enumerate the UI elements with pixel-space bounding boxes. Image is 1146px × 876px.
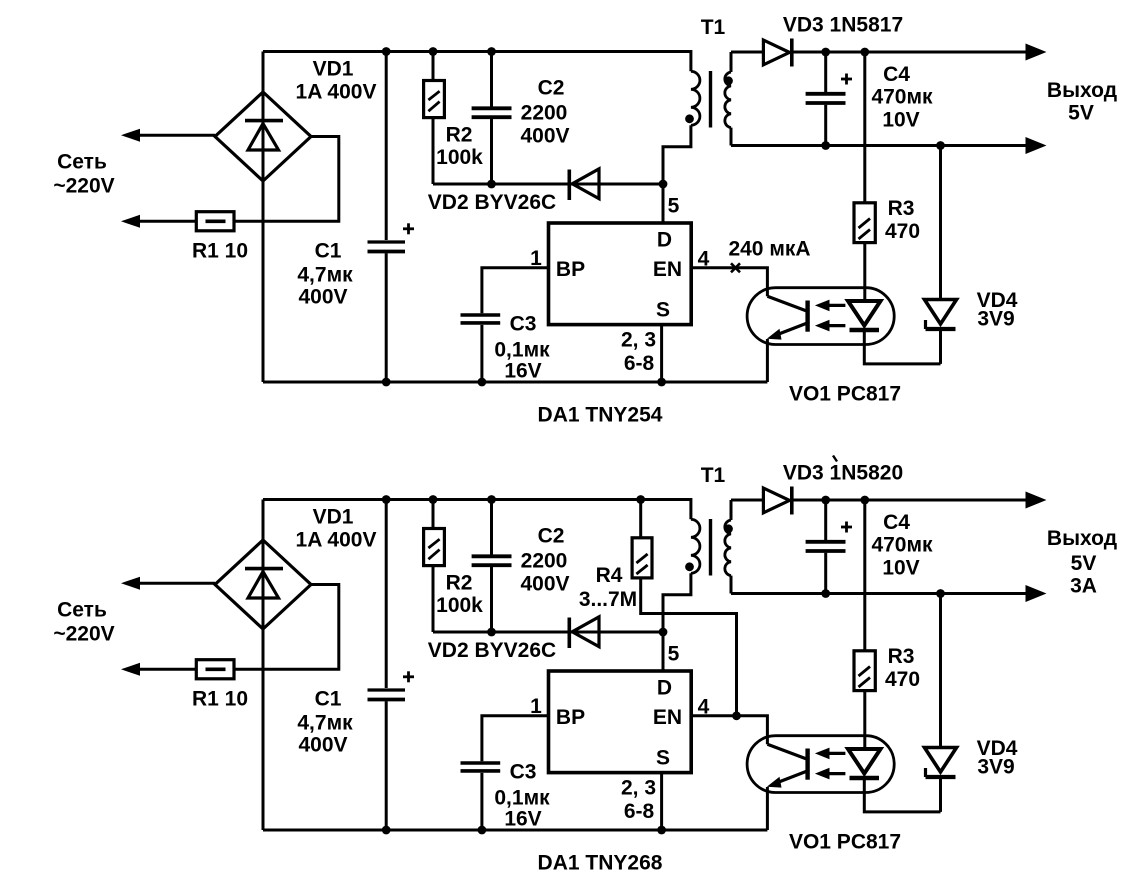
svg-text:0,1мк: 0,1мк bbox=[494, 339, 550, 362]
wire C2 branch (B) bbox=[490, 500, 493, 633]
wire R2 branch (A) bbox=[432, 52, 435, 185]
IC DA1 box (A) bbox=[549, 223, 692, 325]
svg-text:R1 10: R1 10 bbox=[192, 688, 248, 711]
svg-text:R2: R2 bbox=[446, 572, 473, 595]
C4 polarity plus (A) bbox=[841, 78, 852, 81]
svg-text:VD2 BYV26C: VD2 BYV26C bbox=[428, 191, 556, 214]
svg-text:~220V: ~220V bbox=[53, 175, 114, 198]
svg-text:3A: 3A bbox=[1070, 575, 1097, 598]
resistor R3 body (A) bbox=[854, 203, 875, 243]
transformer T1 secondary coil (A) bbox=[725, 72, 731, 128]
svg-text:R3: R3 bbox=[888, 197, 915, 220]
VD1 internal diode triangle (B) bbox=[248, 572, 279, 598]
svg-text:10V: 10V bbox=[882, 109, 919, 132]
wire R3 branch (B) bbox=[863, 500, 866, 749]
arrow +output (B) bbox=[1026, 492, 1047, 509]
junction C2 top (A) bbox=[487, 47, 496, 56]
junction C2 bottom (A) bbox=[487, 180, 496, 189]
svg-text:S: S bbox=[656, 747, 670, 770]
bridge rectifier VD1 diamond (A) bbox=[215, 92, 311, 181]
svg-text:400V: 400V bbox=[520, 573, 569, 596]
VD1 internal diode triangle (A) bbox=[248, 124, 279, 150]
diode VD3 cathode bar (A) bbox=[790, 39, 794, 67]
C1 polarity plus (A) bbox=[403, 227, 414, 230]
svg-text:VD1: VD1 bbox=[313, 58, 354, 81]
diode VD2 triangle (A) bbox=[572, 169, 599, 199]
junction S bottom (A) bbox=[657, 378, 666, 387]
svg-text:400V: 400V bbox=[298, 734, 347, 757]
wire pin 5 (B) bbox=[662, 632, 665, 671]
svg-text:C3: C3 bbox=[510, 761, 537, 784]
transformer T1 primary coil (A) bbox=[691, 71, 700, 125]
wire R4 top (B) bbox=[639, 500, 642, 539]
wire R1 to lower AC arrow (B) bbox=[138, 668, 196, 671]
wire bridge vertical VD1 + to bus (A) bbox=[262, 52, 265, 383]
resistor R1 body (B) bbox=[196, 660, 234, 679]
wire secondary top stub (B) bbox=[730, 500, 733, 520]
svg-text:4,7мк: 4,7мк bbox=[297, 264, 353, 287]
svg-text:2, 3: 2, 3 bbox=[621, 329, 656, 352]
svg-text:5: 5 bbox=[668, 643, 680, 666]
junction R2 top (A) bbox=[429, 47, 438, 56]
diode VD2 triangle (B) bbox=[572, 617, 599, 647]
svg-text:C1: C1 bbox=[315, 688, 342, 711]
wire pin S (B) bbox=[660, 773, 663, 830]
zener VD4 triangle (B) bbox=[925, 748, 957, 773]
wire pin 1 / BP (A) bbox=[482, 268, 549, 382]
wire secondary to VD3 (B) bbox=[731, 499, 763, 502]
wire bottom HV bus (A) bbox=[263, 381, 767, 384]
zener VD4 cathode bar (A) bbox=[926, 327, 956, 331]
wire bridge vertical VD1 + to bus (B) bbox=[262, 500, 265, 831]
wire clamp node (VD2 cathode wire) (A) bbox=[433, 183, 663, 186]
svg-text:6-8: 6-8 bbox=[624, 800, 655, 823]
VD1 internal diode cathode bar (B) bbox=[245, 567, 283, 571]
svg-text:1A 400V: 1A 400V bbox=[296, 529, 377, 552]
arrow lower AC lead (A) bbox=[121, 215, 140, 228]
svg-text:C4: C4 bbox=[883, 63, 910, 86]
IC DA1 box (B) bbox=[549, 671, 692, 773]
wire secondary top stub (A) bbox=[730, 52, 733, 72]
svg-text:T1: T1 bbox=[701, 464, 726, 487]
wire R3 branch (A) bbox=[863, 52, 866, 301]
svg-text:2200: 2200 bbox=[521, 102, 568, 125]
optocoupler VO1 body (A) bbox=[747, 288, 894, 345]
resistor R4 marks (B) bbox=[636, 554, 647, 563]
svg-text:R3: R3 bbox=[888, 645, 915, 668]
svg-text:Выход: Выход bbox=[1047, 79, 1117, 102]
capacitor C3 plates (A) bbox=[461, 313, 501, 317]
svg-text:470мк: 470мк bbox=[871, 86, 933, 109]
transformer T1 core (A) bbox=[709, 71, 712, 128]
svg-text:5V: 5V bbox=[1068, 102, 1094, 125]
diode VD3 cathode bar (B) bbox=[790, 487, 794, 515]
svg-text:470: 470 bbox=[885, 220, 920, 243]
wire C4 branch (B) bbox=[824, 500, 827, 594]
svg-text:100k: 100k bbox=[436, 146, 483, 169]
junction C4 bottom (A) bbox=[821, 141, 830, 150]
junction C2 bottom (B) bbox=[487, 628, 496, 637]
VO1 LED cathode bar (A) bbox=[850, 328, 880, 332]
capacitor C1 plates (B) bbox=[368, 688, 406, 691]
svg-text:D: D bbox=[657, 229, 672, 252]
svg-text:470: 470 bbox=[885, 668, 920, 691]
svg-text:6-8: 6-8 bbox=[624, 352, 655, 375]
diode VD2 cathode bar (A) bbox=[567, 170, 571, 201]
junction drain node (pin 5) (A) bbox=[659, 180, 668, 189]
zener VD4 anode tick (B) bbox=[924, 768, 927, 777]
VO1 LED triangle (A) bbox=[848, 301, 881, 326]
wire R2 branch (B) bbox=[432, 500, 435, 633]
wire secondary bottom stub (B) bbox=[730, 576, 733, 594]
wire bridge right to R1 (B) bbox=[234, 585, 339, 670]
svg-text:3V9: 3V9 bbox=[977, 756, 1014, 779]
svg-text:Сеть: Сеть bbox=[57, 599, 107, 622]
wire bridge right to R1 (A) bbox=[234, 137, 339, 222]
svg-text:1A 400V: 1A 400V bbox=[296, 81, 377, 104]
stray accent mark (B) bbox=[833, 456, 837, 462]
wire secondary bottom stub (A) bbox=[730, 128, 733, 146]
T1 primary phase dot (B) bbox=[685, 562, 694, 571]
capacitor C4 plates (B) bbox=[806, 540, 846, 544]
junction C4 bottom (B) bbox=[821, 589, 830, 598]
current break marker (A) bbox=[731, 263, 740, 272]
svg-text:T1: T1 bbox=[701, 16, 726, 39]
T1 primary phase dot (A) bbox=[685, 114, 694, 123]
arrow upper AC lead (B) bbox=[121, 577, 140, 590]
junction C1 bottom (A) bbox=[382, 378, 391, 387]
capacitor C3 plates (B) bbox=[461, 761, 501, 765]
svg-text:DA1 TNY254: DA1 TNY254 bbox=[538, 404, 663, 427]
wire VD4 branch (B) bbox=[939, 594, 942, 812]
wire bottom HV bus (B) bbox=[263, 829, 767, 832]
resistor R1 inner bar (A) bbox=[206, 220, 226, 224]
arrow -output (A) bbox=[1026, 137, 1047, 154]
VO1 phototransistor emitter (B) bbox=[772, 772, 806, 785]
svg-text:Выход: Выход bbox=[1047, 527, 1117, 550]
junction C1 top (A) bbox=[382, 47, 391, 56]
transformer T1 core (B) bbox=[709, 519, 712, 576]
resistor R2 marks (B) bbox=[428, 539, 439, 548]
VO1 phototransistor base bar (B) bbox=[805, 749, 809, 780]
wire VD4 branch (A) bbox=[939, 146, 942, 364]
svg-text:VO1 PC817: VO1 PC817 bbox=[789, 831, 901, 854]
wire C2 branch (A) bbox=[490, 52, 493, 185]
svg-text:VD3 1N5820: VD3 1N5820 bbox=[783, 462, 903, 485]
svg-text:400V: 400V bbox=[298, 286, 347, 309]
bridge rectifier VD1 diamond (B) bbox=[215, 540, 311, 629]
resistor R3 body (B) bbox=[854, 651, 875, 691]
svg-text:240 мкА: 240 мкА bbox=[728, 238, 810, 261]
svg-text:EN: EN bbox=[653, 706, 682, 729]
arrow lower AC lead (B) bbox=[121, 663, 140, 676]
svg-text:R2: R2 bbox=[446, 124, 473, 147]
capacitor C1 plates (A) bbox=[368, 240, 406, 243]
junction R3 top (B) bbox=[860, 496, 869, 505]
optocoupler VO1 body (B) bbox=[747, 736, 894, 793]
svg-text:16V: 16V bbox=[504, 808, 541, 831]
svg-text:R4: R4 bbox=[596, 564, 623, 587]
svg-text:4,7мк: 4,7мк bbox=[297, 712, 353, 735]
junction R3 top (A) bbox=[860, 48, 869, 57]
wire C1 branch (A) bbox=[385, 52, 388, 383]
T1 secondary phase dot (A) bbox=[724, 76, 733, 85]
svg-text:2200: 2200 bbox=[521, 550, 568, 573]
wire pin 4 EN (B) bbox=[691, 716, 767, 745]
junction VD4 top (A) bbox=[936, 141, 945, 150]
svg-text:C3: C3 bbox=[510, 313, 537, 336]
junction R2 top (B) bbox=[429, 495, 438, 504]
capacitor C2 plates (A) bbox=[472, 106, 512, 110]
svg-text:VD3 1N5817: VD3 1N5817 bbox=[783, 14, 903, 37]
svg-text:0,1мк: 0,1мк bbox=[494, 787, 550, 810]
resistor R2 body (B) bbox=[424, 529, 445, 566]
VO1 phototransistor base bar (A) bbox=[805, 301, 809, 332]
VO1 light arrow upper (A) bbox=[828, 304, 845, 307]
zener VD4 triangle (A) bbox=[925, 300, 957, 325]
VO1 emitter arrow (A) bbox=[767, 329, 782, 340]
svg-text:5: 5 bbox=[668, 195, 680, 218]
resistor R1 inner bar (B) bbox=[206, 667, 226, 671]
wire +output rail (B) bbox=[792, 499, 1027, 502]
junction VD4 top (B) bbox=[936, 589, 945, 598]
capacitor C2 plates (B) bbox=[472, 554, 512, 558]
wire pin 4 EN (A) bbox=[691, 268, 767, 297]
junction C4 top (A) bbox=[821, 48, 830, 57]
wire pin 1 / BP (B) bbox=[482, 716, 549, 830]
junction BP branch bottom (B) bbox=[478, 826, 487, 835]
svg-text:Сеть: Сеть bbox=[57, 151, 107, 174]
junction BP branch bottom (A) bbox=[478, 378, 487, 387]
wire secondary to VD3 (A) bbox=[731, 51, 763, 54]
wire emitter to bus (B) bbox=[766, 787, 769, 830]
wire upper AC lead (A) bbox=[138, 134, 215, 137]
svg-text:16V: 16V bbox=[504, 360, 541, 383]
svg-text:VD1: VD1 bbox=[313, 506, 354, 529]
junction C2 top (B) bbox=[487, 495, 496, 504]
svg-text:C4: C4 bbox=[883, 511, 910, 534]
svg-text:2, 3: 2, 3 bbox=[621, 777, 656, 800]
arrow upper AC lead (A) bbox=[121, 129, 140, 142]
VO1 phototransistor collector (A) bbox=[767, 296, 806, 311]
wire C1 branch (B) bbox=[385, 500, 388, 831]
wire upper AC lead (B) bbox=[138, 582, 215, 585]
wire LED cathode to VD4 (B) bbox=[864, 778, 940, 812]
C4 polarity plus (B) bbox=[841, 526, 852, 529]
svg-text:R1 10: R1 10 bbox=[192, 240, 248, 263]
junction R4 top (B) bbox=[636, 495, 645, 504]
VO1 light arrow lower (A) bbox=[828, 324, 845, 327]
VO1 emitter arrow (B) bbox=[767, 777, 782, 788]
wire +output rail (A) bbox=[792, 51, 1027, 54]
svg-text:10V: 10V bbox=[882, 557, 919, 580]
svg-text:5V: 5V bbox=[1071, 552, 1097, 575]
svg-text:3...7M: 3...7M bbox=[579, 588, 637, 611]
arrow +output (A) bbox=[1026, 44, 1047, 61]
svg-text:VD2 BYV26C: VD2 BYV26C bbox=[428, 639, 556, 662]
svg-text:VO1 PC817: VO1 PC817 bbox=[789, 383, 901, 406]
svg-text:D: D bbox=[657, 677, 672, 700]
VO1 phototransistor emitter (A) bbox=[772, 324, 806, 337]
svg-text:BP: BP bbox=[556, 258, 585, 281]
svg-text:C1: C1 bbox=[315, 240, 342, 263]
wire top HV bus (A) bbox=[263, 52, 691, 72]
wire top HV bus (B) bbox=[263, 500, 691, 520]
wire -output rail (A) bbox=[731, 144, 1027, 147]
arrow -output (B) bbox=[1026, 585, 1047, 602]
diode VD3 triangle (A) bbox=[763, 40, 789, 65]
resistor R3 marks (B) bbox=[859, 667, 871, 677]
svg-text:C2: C2 bbox=[538, 77, 565, 100]
wire drain riser to primary (A) bbox=[663, 125, 691, 184]
svg-text:~220V: ~220V bbox=[53, 623, 114, 646]
resistor R4 body (B) bbox=[632, 538, 652, 578]
svg-text:S: S bbox=[656, 299, 670, 322]
svg-text:400V: 400V bbox=[520, 125, 569, 148]
VO1 light arrow upper (B) bbox=[828, 752, 845, 755]
T1 secondary phase dot (B) bbox=[724, 524, 733, 533]
transformer T1 secondary coil (B) bbox=[725, 520, 731, 576]
wire R4 to EN (B) bbox=[641, 578, 737, 716]
resistor R2 marks (A) bbox=[428, 91, 439, 100]
VO1 LED triangle (B) bbox=[848, 749, 881, 774]
wire -output rail (B) bbox=[731, 592, 1027, 595]
junction C1 bottom (B) bbox=[382, 826, 391, 835]
svg-text:BP: BP bbox=[556, 706, 585, 729]
resistor R1 body (A) bbox=[196, 212, 234, 231]
junction C1 top (B) bbox=[382, 495, 391, 504]
capacitor C4 plates (A) bbox=[806, 92, 846, 96]
resistor R2 body (A) bbox=[424, 81, 445, 118]
transformer T1 primary coil (B) bbox=[691, 519, 700, 573]
junction C4 top (B) bbox=[821, 496, 830, 505]
wire pin S (A) bbox=[660, 325, 663, 382]
C1 polarity plus (B) bbox=[403, 675, 414, 678]
svg-text:DA1 TNY268: DA1 TNY268 bbox=[538, 852, 663, 875]
junction S bottom (B) bbox=[657, 826, 666, 835]
VO1 light arrow lower (B) bbox=[828, 772, 845, 775]
zener VD4 anode tick (A) bbox=[924, 320, 927, 329]
svg-text:C2: C2 bbox=[538, 525, 565, 548]
wire emitter to bus (A) bbox=[766, 339, 769, 382]
wire drain riser to primary (B) bbox=[663, 573, 691, 632]
diode VD2 cathode bar (B) bbox=[567, 618, 571, 649]
svg-text:3V9: 3V9 bbox=[977, 308, 1014, 331]
VO1 phototransistor collector (B) bbox=[767, 744, 806, 759]
wire C4 branch (A) bbox=[824, 52, 827, 146]
resistor R3 marks (A) bbox=[859, 219, 871, 229]
svg-text:470мк: 470мк bbox=[871, 534, 933, 557]
junction EN / R4 (B) bbox=[732, 711, 741, 720]
svg-text:100k: 100k bbox=[436, 594, 483, 617]
diode VD3 triangle (B) bbox=[763, 488, 789, 513]
VO1 LED cathode bar (B) bbox=[850, 776, 880, 780]
wire clamp node (VD2 cathode wire) (B) bbox=[433, 631, 663, 634]
zener VD4 cathode bar (B) bbox=[926, 775, 956, 779]
junction drain node (pin 5) (B) bbox=[659, 628, 668, 637]
wire pin 5 (A) bbox=[662, 184, 665, 223]
svg-text:EN: EN bbox=[653, 258, 682, 281]
wire LED cathode to VD4 (A) bbox=[864, 330, 940, 364]
wire R1 to lower AC arrow (A) bbox=[138, 220, 196, 223]
VD1 internal diode cathode bar (A) bbox=[245, 119, 283, 123]
